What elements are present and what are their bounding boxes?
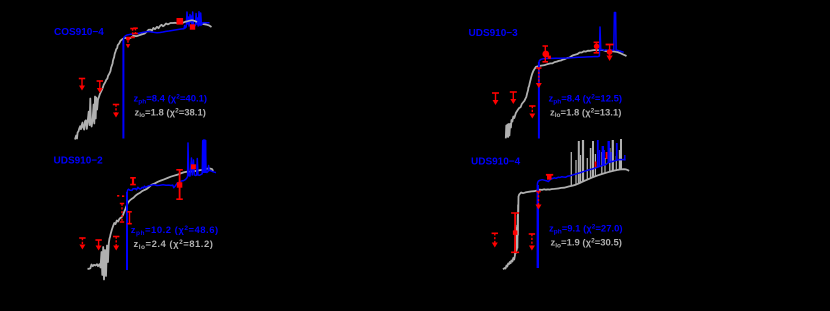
panel 1 grey spectrum bump visible over model spikes [186,20,198,22]
panel 4 red upper limit arrow B [529,233,535,235]
panel 4 grey noise spikes [570,152,572,186]
panel 3 red error bar upper [130,178,136,185]
panel 3 thick blue emission spike [202,140,206,173]
panel 4 red big error bar with square [511,213,519,252]
panel 3 grey observed spectrum [88,168,214,279]
panel 1 red point with downward arrow near break [126,37,130,41]
panel 4 red upper limit arrow A [492,232,498,234]
panel 4 red marks in spike forest [596,152,607,167]
panel 3 red error bar right of break [127,212,132,224]
panel 1 grey observed spectrum [75,20,212,139]
panel 2 red upper limit arrow C [529,105,535,107]
panel 1 red upper limit arrow B [97,80,103,82]
panel 1 red photometry square 1 [177,18,184,25]
panel 1 blue model vertical break line [122,40,124,139]
svg-text:UDS910−2: UDS910−2 [54,156,104,167]
panel 1 red upper limit arrow C [113,104,119,106]
panel 2 red point with error bar at break [543,46,549,62]
panel 3 red upper limit arrow A [79,237,85,239]
panel 3 red upper limit arrow B [95,239,101,241]
panel 1 red dashed error bar 1 [130,29,135,38]
svg-text:COS910−4: COS910−4 [54,27,104,38]
panel 3 red upper limit arrow C [113,236,119,238]
panel 1 red photometry square 2 [190,24,195,29]
panel 4 blue model spectrum [537,160,625,186]
svg-text:zlo=1.8 (χ2=38.1): zlo=1.8 (χ2=38.1) [135,107,206,119]
panel 4 blue model vertical break line [537,185,539,268]
panel 1 red dashed error bar 2 [133,28,138,33]
svg-text:zlo=1.9 (χ2=30.5): zlo=1.9 (χ2=30.5) [551,238,622,250]
svg-text:UDS910−3: UDS910−3 [469,28,519,39]
panel 2 grey observed spectrum [506,50,627,138]
panel 3 blue model spectrum with emission spikes [127,140,216,192]
svg-text:zlo=2.4 (χ2=81.2): zlo=2.4 (χ2=81.2) [134,239,214,251]
svg-text:zlo=1.8 (χ2=13.1): zlo=1.8 (χ2=13.1) [550,107,621,119]
panel 3 red photometry square [191,164,196,169]
panel 2 red dashed marks below break [536,67,542,69]
panel 3 red point with large error bar [176,170,183,199]
panel 3 red dashes left of break [117,195,124,197]
panel 2 blue model spectrum with emission spikes [539,13,624,63]
panel 4 red square point with cap [546,174,553,176]
panel 2 red upper limit arrow B [510,91,517,93]
panel 2 red upper limit arrow A [492,92,499,94]
panel 2 red point with downward arrow [606,44,614,46]
panel 4 red dashed arrow at break [536,191,541,193]
panel 2 blue model vertical break line [538,62,540,139]
panel 2 red point with error bar mid [594,42,600,53]
panel 3 blue model vertical break line [126,192,128,270]
panel 1 blue model spectrum with emission spikes [123,12,209,40]
panel 1 red upper limit arrow A [79,78,85,80]
svg-text:UDS910−4: UDS910−4 [471,157,521,168]
panel 4 grey observed spectrum [503,169,629,269]
panel 4 blue emission spikes [597,140,599,167]
